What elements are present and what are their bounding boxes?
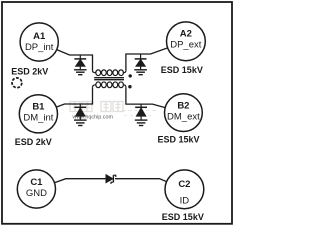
- svg-text:DM_int: DM_int: [23, 112, 53, 123]
- TVS diode D2: [135, 54, 147, 70]
- watermark right faint text: [122, 111, 156, 116]
- svg-text:DM_ext: DM_ext: [167, 112, 200, 123]
- wire B1 to choke bottom-left: [56, 87, 92, 107]
- TVS diode D4: [135, 104, 147, 120]
- svg-text:GND: GND: [26, 188, 47, 199]
- svg-text:C2: C2: [178, 179, 190, 190]
- svg-text:A1: A1: [33, 31, 46, 42]
- wire choke top-right to A2: [126, 48, 168, 71]
- svg-text:ESD 15kV: ESD 15kV: [161, 65, 203, 75]
- node C1 GND: [17, 170, 55, 208]
- ground D1: [74, 70, 87, 75]
- wire A1 to choke top-left: [57, 50, 93, 71]
- wire schottky diode to C2: [115, 179, 167, 182]
- test point marker dashed circle: [12, 78, 22, 88]
- node A2 DP_ext: [167, 22, 206, 61]
- svg-text:ESD 2kV: ESD 2kV: [15, 137, 52, 147]
- svg-text:DP_int: DP_int: [25, 42, 54, 53]
- svg-text:B2: B2: [177, 100, 189, 111]
- svg-text:ESD 2kV: ESD 2kV: [11, 66, 48, 76]
- choke core: [94, 78, 124, 80]
- TVS diode D3: [74, 104, 86, 120]
- schottky diode D5: [106, 174, 116, 184]
- node C2 ID: [165, 170, 204, 209]
- common-mode choke L1 top winding: [93, 70, 126, 76]
- wire C1 to schottky diode: [54, 179, 106, 183]
- node A1 DP_int: [20, 23, 58, 61]
- svg-text:DP_ext: DP_ext: [170, 39, 202, 50]
- ground D4: [135, 120, 148, 125]
- node B2 DM_ext: [165, 94, 203, 132]
- svg-text:A2: A2: [180, 28, 192, 39]
- polarity dot top: [129, 74, 132, 77]
- ground D2: [134, 70, 147, 75]
- TVS diode D1: [74, 55, 86, 70]
- ground D3: [74, 120, 87, 125]
- svg-text:ESD 15kV: ESD 15kV: [158, 135, 200, 145]
- svg-text:ESD 15kV: ESD 15kV: [162, 212, 204, 222]
- svg-text:ID: ID: [180, 195, 190, 206]
- wire choke bottom-right to B2: [126, 87, 165, 107]
- choke bottom winding: [93, 82, 126, 88]
- svg-text:B1: B1: [32, 102, 45, 113]
- watermark: [70, 102, 123, 112]
- svg-text:C1: C1: [30, 177, 43, 188]
- polarity dot bottom: [128, 85, 131, 88]
- node B1 DM_int: [19, 95, 57, 133]
